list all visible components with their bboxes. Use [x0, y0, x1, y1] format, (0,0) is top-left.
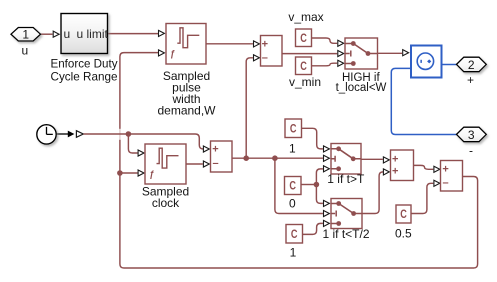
- port arrow switch middle: [338, 50, 344, 56]
- svg-text:clock: clock: [152, 196, 180, 210]
- svg-text:1 if t<T/2: 1 if t<T/2: [322, 227, 369, 241]
- wire sum3 output to sum4 plus: [414, 165, 434, 169]
- svg-text:u: u: [64, 27, 71, 41]
- svg-text:1: 1: [289, 141, 296, 155]
- svg-text:+: +: [467, 73, 474, 87]
- wire switch output to voltage source: [378, 52, 403, 54]
- svg-text:–: –: [212, 158, 218, 170]
- port arrow sum4 plus: [434, 166, 440, 172]
- junction dot t_local to sum2: [243, 155, 249, 161]
- svg-text:ƒ: ƒ: [149, 169, 154, 179]
- svg-text:–: –: [443, 177, 449, 189]
- wire clock line to sum1 plus input: [84, 134, 204, 149]
- wire t_local down to switch2 middle: [275, 158, 323, 213]
- block Sampled pulse width demand,W: [166, 24, 206, 65]
- svg-text:C: C: [291, 229, 298, 241]
- svg-text:Enforce Duty: Enforce Duty: [51, 57, 118, 71]
- sum4 block: [441, 161, 463, 192]
- svg-text:C: C: [300, 61, 307, 73]
- wire constant 1 top to switch1 top input: [302, 128, 323, 149]
- constant v_max: [296, 29, 312, 47]
- svg-text:+: +: [262, 38, 268, 50]
- constant 0: [285, 177, 302, 195]
- sum2 block: [261, 36, 283, 67]
- svg-text:–: –: [262, 52, 268, 64]
- junction dot constant 0: [314, 182, 320, 188]
- port arrow sampled clock input 1: [138, 150, 144, 156]
- junction dot clock line: [126, 131, 132, 137]
- wire clock line branch to sampled clock input: [128, 134, 137, 153]
- svg-text:1: 1: [290, 246, 297, 260]
- port arrow voltage source input: [403, 50, 409, 56]
- wire hop gap on feedback vertical at clock line crossing: [119, 129, 122, 140]
- wire inport u to Enforce block: [41, 33, 53, 35]
- wire constant 0 down to switch2 top: [316, 185, 323, 204]
- block Enforce Duty Cycle Range: [61, 14, 108, 54]
- port arrow sum1 minus: [203, 161, 209, 167]
- svg-text:2: 2: [468, 58, 475, 72]
- sum3 block: [391, 150, 414, 181]
- constant 0.5: [396, 205, 411, 223]
- port arrow switch2 bottom: [324, 220, 330, 226]
- wire voltage source minus to outport 3 (blue): [391, 68, 457, 134]
- svg-text:-: -: [469, 144, 473, 158]
- wire clock output black: [56, 133, 68, 135]
- svg-text:0.5: 0.5: [395, 227, 412, 241]
- svg-text:0: 0: [289, 197, 296, 211]
- wire switch1 output to sum3 plus: [361, 158, 383, 160]
- junction dot feedback to clock trigger: [117, 170, 123, 176]
- block Sampled clock: [145, 144, 186, 184]
- constant 1 top: [285, 119, 302, 138]
- svg-text:u limit: u limit: [77, 27, 109, 41]
- switch1 1 if t>T: [331, 144, 361, 175]
- port arrow sum2 minus: [254, 55, 260, 61]
- svg-text:C: C: [289, 181, 296, 193]
- wire sum1 output t_local line to switch1 middle: [232, 157, 323, 159]
- port arrow switch bottom: [338, 60, 344, 66]
- switch HIGH if t_local<W: [345, 38, 378, 69]
- wire constant 1 bottom to switch2 bottom: [303, 223, 323, 234]
- wire feedback branch to sampled clock trigger: [120, 172, 138, 174]
- svg-text:C: C: [300, 33, 307, 45]
- arrowhead clock wire: [68, 131, 75, 138]
- svg-text:+: +: [392, 153, 398, 165]
- svg-text:v_max: v_max: [288, 10, 323, 24]
- svg-text:1 if t>T: 1 if t>T: [327, 172, 365, 186]
- port arrow switch2 middle: [324, 210, 330, 216]
- svg-text:+: +: [442, 164, 448, 176]
- svg-text:u: u: [21, 44, 28, 58]
- port arrow sum1 plus: [203, 146, 209, 152]
- switch2 1 if t<T/2: [331, 199, 362, 229]
- port arrow on clock line: [76, 131, 83, 138]
- junction dot t_local to switch2: [272, 155, 278, 161]
- port arrow sampled clock trigger: [138, 170, 144, 176]
- wire switch2 output to sum3 lower plus: [362, 172, 383, 214]
- svg-text:C: C: [400, 209, 407, 221]
- wire Enforce output to pulse width block input: [108, 33, 159, 35]
- svg-text:1: 1: [22, 28, 29, 42]
- svg-text:t_local<W: t_local<W: [336, 82, 387, 94]
- port arrow sum4 minus: [434, 180, 440, 186]
- inport 1 u: [11, 28, 41, 42]
- wire pulse width output to sum2 plus: [206, 43, 253, 45]
- wire voltage source plus to outport 2 (blue): [442, 64, 458, 66]
- port arrow switch1 top: [324, 146, 330, 152]
- svg-text:demand,W: demand,W: [157, 104, 216, 118]
- voltage source block (blue): [411, 46, 442, 78]
- sum1 block: [211, 141, 233, 172]
- port arrow switch1 bottom: [324, 166, 330, 172]
- svg-text:C: C: [290, 123, 297, 135]
- port arrow switch top: [338, 40, 344, 46]
- wire t_local up to sum2 minus input: [246, 58, 253, 158]
- wire v_max to switch top: [312, 38, 338, 43]
- svg-text:3: 3: [468, 128, 475, 142]
- wire constant 0 up to switch1 bottom: [316, 169, 323, 185]
- wire sum2 output to switch middle: [282, 53, 337, 55]
- wire v_min to switch bottom: [312, 63, 338, 66]
- port arrow sum3 top: [383, 157, 389, 163]
- constant 1 bottom: [286, 225, 303, 244]
- outport 2: [457, 57, 487, 71]
- svg-text:Cycle Range: Cycle Range: [51, 70, 118, 84]
- port arrow switch1 middle: [324, 155, 330, 161]
- svg-text:v_min: v_min: [289, 75, 321, 89]
- port arrow sum3 bottom: [383, 169, 389, 175]
- svg-text:ƒ: ƒ: [170, 49, 175, 59]
- wire feedback loop from sum4 output to trigger inputs: [120, 53, 478, 268]
- port arrow pulse width trigger input: [159, 50, 165, 56]
- outport 3: [457, 127, 487, 142]
- constant v_min: [296, 57, 312, 75]
- port arrow switch2 top: [324, 200, 330, 206]
- wire constant 0.5 to sum4 minus: [411, 183, 433, 213]
- port arrow pulse width input 1: [159, 30, 165, 36]
- wire constant 0 to junction: [302, 184, 317, 186]
- port arrow at Enforce input: [53, 31, 59, 37]
- port arrow sum2 plus: [254, 41, 260, 47]
- svg-text:+: +: [212, 143, 218, 155]
- clock block: [37, 125, 56, 144]
- wire sampled clock output to sum1 minus: [186, 163, 203, 165]
- svg-text:+: +: [392, 166, 398, 178]
